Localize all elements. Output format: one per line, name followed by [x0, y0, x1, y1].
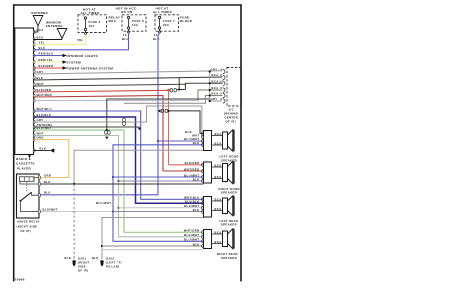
relay link dashed — [26, 182, 28, 192]
wire BLU/BLK to left rear row2 — [34, 117, 204, 203]
left rear row4 — [113, 211, 204, 213]
ground G201 symbol — [72, 260, 75, 263]
svg-text:POWER ANTENNA SYSTEM: POWER ANTENNA SYSTEM — [67, 67, 114, 71]
connector ovals below green junction — [105, 131, 108, 135]
window antenna A2 — [34, 29, 67, 40]
svg-text:BLU/WHT: BLU/WHT — [96, 201, 111, 205]
svg-text:BLK/WHT: BLK/WHT — [184, 204, 199, 208]
radio & cassette player box — [15, 28, 34, 155]
fuse S symbol — [127, 16, 129, 33]
svg-text:RED/YEL: RED/YEL — [39, 58, 54, 62]
junction green/antenna riser — [106, 129, 108, 131]
svg-text:YEL: YEL — [77, 38, 84, 42]
border frame — [14, 4, 241, 281]
left door speaker wires + symbol — [212, 135, 223, 137]
svg-text:WHT/GRN: WHT/GRN — [184, 229, 200, 233]
wire left door row4 return down — [113, 145, 204, 242]
svg-text:BCA: BCA — [212, 86, 219, 90]
svg-text:BCA: BCA — [212, 79, 219, 83]
branch left rear row3 — [117, 207, 119, 209]
svg-text:OR ON: OR ON — [121, 10, 133, 14]
connector on green vertical — [123, 118, 126, 122]
svg-text:(BEHIND: (BEHIND — [224, 112, 238, 116]
relay coil — [20, 177, 35, 182]
svg-text:BLK: BLK — [65, 256, 72, 260]
svg-text:BCA: BCA — [37, 28, 44, 32]
BLU wire fuse S to radio — [34, 33, 129, 50]
svg-text:BCA: BCA — [215, 141, 222, 145]
connector C1 — [167, 89, 170, 93]
svg-text:SPEAKER: SPEAKER — [221, 191, 237, 195]
svg-text:BLU: BLU — [39, 46, 46, 50]
GRY tie vertical at J/C — [209, 72, 211, 102]
wire C2 to left door row1 — [168, 111, 204, 134]
wire GRY riser to left door row2 — [34, 106, 204, 137]
svg-text:RED/BLU: RED/BLU — [39, 52, 54, 56]
svg-text:OF IP): OF IP) — [21, 229, 31, 233]
wire ORG to noise relay — [34, 140, 69, 178]
branch right door row4 — [117, 180, 119, 182]
svg-text:BLK: BLK — [185, 130, 192, 134]
svg-text:BCA: BCA — [215, 240, 222, 244]
svg-text:BLK: BLK — [193, 177, 200, 181]
radio pin bumps — [34, 30, 36, 152]
svg-text:BCA: BCA — [215, 132, 222, 136]
relay pin bumps — [39, 176, 41, 213]
svg-text:WHT: WHT — [192, 134, 199, 138]
connector C2 — [158, 109, 161, 113]
right rear speaker connector — [204, 230, 212, 249]
wire WHT/RED down at x163 — [34, 96, 164, 172]
svg-text:RIGHT REAR: RIGHT REAR — [217, 252, 238, 256]
svg-text:RIGHT DOOR: RIGHT DOOR — [219, 187, 240, 191]
svg-text:70966: 70966 — [15, 278, 25, 282]
fuse X symbol — [84, 17, 86, 35]
svg-text:BLU: BLU — [44, 191, 51, 195]
svg-text:WHT/BLU: WHT/BLU — [37, 107, 52, 111]
pale wire to J/C pin 3 — [34, 100, 199, 102]
svg-text:BCA: BCA — [215, 207, 222, 211]
ground G202 symbol — [100, 260, 103, 263]
svg-text:SIDE: SIDE — [78, 265, 86, 269]
wire BLK/RED to power antenna system — [34, 67, 63, 69]
svg-text:GRY: GRY — [211, 67, 218, 71]
red wire to right door row1 — [169, 164, 204, 166]
svg-text:BCA: BCA — [212, 92, 219, 96]
svg-text:6: 6 — [220, 73, 222, 77]
svg-text:BOX: BOX — [109, 19, 117, 23]
red branch down at x168.5 — [167, 89, 169, 91]
svg-text:4: 4 — [220, 67, 222, 71]
left door feed wires into connector — [200, 133, 204, 135]
svg-text:J/C: J/C — [229, 108, 234, 112]
wire RED/BLU to interior lights — [34, 55, 63, 57]
svg-text:BCA: BCA — [215, 175, 222, 179]
svg-text:9: 9 — [220, 97, 222, 101]
svg-text:LEFT DOOR: LEFT DOOR — [220, 155, 239, 159]
svg-text:(RIGHT: (RIGHT — [78, 261, 90, 265]
svg-text:BLK: BLK — [40, 147, 47, 151]
svg-text:BLU/WHT: BLU/WHT — [184, 238, 199, 242]
noise relay box — [17, 174, 40, 218]
svg-text:BLK/RED: BLK/RED — [185, 161, 200, 165]
branch BLK down to connector line — [178, 78, 180, 90]
black riser line to green junction — [107, 99, 210, 130]
svg-text:INTERIOR LIGHTS: INTERIOR LIGHTS — [67, 54, 98, 58]
svg-text:BLK: BLK — [92, 256, 99, 260]
svg-text:PILLAR): PILLAR) — [106, 265, 120, 269]
svg-text:BLU: BLU — [122, 37, 129, 41]
left door speaker connector — [204, 131, 212, 151]
svg-text:BLK: BLK — [193, 242, 200, 246]
svg-text:BLU/WHT: BLU/WHT — [184, 173, 199, 177]
svg-text:OF IP): OF IP) — [78, 269, 88, 273]
wire BLK with arrow at radio bottom — [34, 150, 51, 152]
svg-text:3: 3 — [220, 86, 222, 90]
wire GRY to J/C pin 4 — [34, 71, 223, 74]
wire ANTENNA — [34, 126, 140, 128]
svg-text:10A: 10A — [132, 23, 138, 27]
svg-text:BLK/WHT: BLK/WHT — [184, 233, 199, 237]
wire BLK to J/C pin 6 — [34, 77, 223, 80]
svg-text:WHT/BLU: WHT/BLU — [184, 196, 199, 200]
dark red wire to right door row2 — [163, 170, 204, 172]
BLU wire fuse Y down to noise relay — [39, 33, 160, 195]
J/C pin sockets — [223, 69, 225, 103]
wire WHT to jog at x185 — [34, 84, 186, 86]
svg-text:SPEAKER: SPEAKER — [221, 256, 237, 260]
svg-text:BLK: BLK — [193, 208, 200, 212]
svg-text:G201: G201 — [78, 257, 86, 261]
svg-text:BLK: BLK — [193, 141, 200, 145]
svg-text:(RIGHT SIDE: (RIGHT SIDE — [17, 224, 38, 228]
svg-text:BLK/RED: BLK/RED — [39, 64, 54, 68]
YEL wire radio to fuse X — [34, 35, 86, 45]
relay switch — [20, 200, 22, 202]
right door speaker connector — [204, 162, 212, 183]
wire WHT lavender down to right rear row2 — [34, 136, 204, 237]
ground G201 dashed drop — [73, 184, 75, 259]
svg-text:BCA: BCA — [37, 36, 44, 40]
wire RED/YEL to system — [34, 61, 63, 63]
svg-text:CASSETTE: CASSETTE — [16, 162, 35, 166]
left rear speaker connector — [204, 197, 212, 218]
svg-text:GRD: GRD — [44, 174, 51, 178]
svg-text:10: 10 — [219, 79, 223, 83]
svg-text:WHT/RED: WHT/RED — [184, 167, 199, 171]
svg-text:12: 12 — [123, 33, 127, 37]
left door speaker frame ground wire — [74, 150, 203, 184]
fuse Y symbol — [158, 16, 160, 33]
svg-text:BCA: BCA — [215, 197, 222, 201]
wire left door row3 from BLU vertical — [157, 140, 159, 142]
svg-text:BLK/RED: BLK/RED — [37, 88, 52, 92]
wire WHT/BLU to left rear row1 — [34, 111, 204, 199]
svg-text:GRY: GRY — [37, 70, 44, 74]
svg-text:BLU/WHT: BLU/WHT — [184, 137, 199, 141]
branch right door row3 — [112, 176, 114, 178]
svg-text:BLU/BLK: BLU/BLK — [37, 113, 52, 117]
svg-text:5: 5 — [220, 92, 222, 96]
svg-text:10A: 10A — [89, 24, 95, 28]
svg-text:NOISE RELAY: NOISE RELAY — [18, 220, 41, 224]
svg-text:YEL: YEL — [39, 40, 46, 44]
svg-text:FUSE X: FUSE X — [89, 20, 101, 24]
svg-text:BLU/WHT: BLU/WHT — [37, 126, 52, 130]
svg-text:BLU: BLU — [153, 37, 160, 41]
svg-text:FUSE Y: FUSE Y — [163, 19, 175, 23]
svg-text:(LEFT "A": (LEFT "A" — [106, 261, 123, 265]
svg-text:LEFT REAR: LEFT REAR — [220, 219, 239, 223]
J/C pin 10 row — [185, 83, 222, 84]
svg-text:ANTENNA: ANTENNA — [46, 24, 64, 28]
svg-text:GRY: GRY — [37, 118, 44, 122]
antenna A1 — [33, 16, 43, 33]
right rear speaker frame line — [102, 249, 204, 251]
svg-text:CENTER: CENTER — [225, 116, 239, 120]
svg-text:SYSTEM: SYSTEM — [67, 61, 82, 65]
svg-text:BLK: BLK — [37, 76, 44, 80]
svg-text:ANTENNA: ANTENNA — [31, 11, 49, 15]
svg-text:PLAYER: PLAYER — [17, 166, 31, 170]
svg-text:WHT/RED: WHT/RED — [37, 93, 52, 97]
J/C dashed box — [227, 68, 242, 107]
wire C1 to pin10 jog — [177, 89, 186, 91]
svg-text:BLOCK: BLOCK — [180, 19, 193, 23]
J/C pin 9 row GRY — [210, 99, 223, 101]
svg-text:OF IP): OF IP) — [226, 120, 236, 124]
wire BLK/RED into connector C1 — [34, 90, 168, 92]
J/C pin 5 row — [124, 96, 223, 104]
left rear speaker frame ground wire — [102, 218, 204, 260]
svg-text:BCA: BCA — [212, 73, 219, 77]
svg-text:20A: 20A — [163, 23, 169, 27]
svg-text:BCA: BCA — [215, 230, 222, 234]
svg-text:ORG: ORG — [37, 136, 44, 140]
svg-text:BCA: BCA — [215, 163, 222, 167]
ground arrow below radio — [28, 155, 31, 158]
svg-text:WHT: WHT — [37, 132, 44, 136]
svg-text:SPEAKER: SPEAKER — [221, 223, 237, 227]
relay BLU/WHT wire to v113 — [41, 211, 113, 213]
svg-text:WHT: WHT — [37, 82, 44, 86]
branch right rear row4 — [101, 245, 103, 247]
svg-text:FUSE S: FUSE S — [132, 19, 144, 23]
relay BLK wire right to right door frame — [41, 183, 204, 185]
svg-text:ALL TIMES: ALL TIMES — [153, 10, 172, 14]
svg-text:GRY: GRY — [211, 97, 218, 101]
svg-text:10: 10 — [154, 33, 158, 37]
svg-text:BLU/BLK: BLU/BLK — [185, 200, 200, 204]
wire BLU/WHT green down to right rear row1 — [34, 130, 204, 232]
svg-text:G202: G202 — [106, 257, 114, 261]
